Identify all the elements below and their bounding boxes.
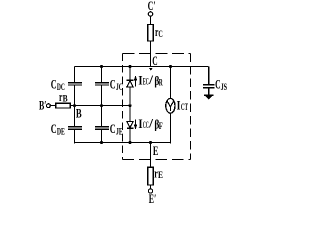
wire CJE to bottom rail	[101, 129, 103, 143]
svg-text:B′: B′	[39, 98, 47, 113]
wire E rail to rE	[150, 143, 152, 167]
junction dot CJC top	[100, 65, 103, 68]
junction dot CJE bottom	[100, 141, 103, 144]
resistor rC label	[155, 24, 163, 39]
capacitor CDE plates	[68, 127, 82, 129]
wire B rail to CDE	[74, 106, 76, 126]
capacitor CDC branch: wire from C rail	[74, 66, 76, 82]
svg-text:CT: CT	[181, 102, 188, 112]
wire CDC to B rail	[74, 85, 76, 106]
wire B rail to diode DBE	[129, 106, 131, 122]
svg-text:B: B	[76, 106, 82, 121]
wire CDE to bottom rail	[74, 129, 76, 144]
diode DBE cathode bar	[127, 127, 134, 129]
junction dot diode/B rail	[128, 104, 131, 107]
svg-text:R: R	[159, 78, 163, 88]
svg-text:JC: JC	[116, 82, 123, 92]
node E' terminal circle	[148, 189, 152, 193]
junction dot E vertical	[149, 141, 152, 144]
node C' terminal label	[148, 0, 156, 13]
dashed intrinsic-transistor box top edge	[122, 53, 190, 55]
svg-text:C: C	[110, 121, 116, 136]
svg-text:C: C	[51, 77, 57, 92]
svg-text:B: B	[63, 94, 68, 104]
wire ICT to bottom rail	[170, 113, 172, 144]
C rail wire	[75, 66, 209, 68]
node C' terminal circle	[148, 12, 152, 16]
svg-text:C: C	[51, 121, 57, 136]
resistor rC body	[148, 25, 154, 42]
wire DBE to bottom rail	[129, 128, 131, 143]
node E' terminal label	[149, 191, 157, 206]
svg-text:C: C	[110, 77, 116, 92]
svg-text:E: E	[158, 170, 163, 180]
node B' terminal circle	[47, 104, 51, 108]
diode branch: junction dot top	[128, 65, 131, 68]
current source ICT: junction dot top	[169, 65, 172, 68]
capacitor CJE label	[110, 121, 123, 137]
wire CJS to ground	[208, 88, 210, 95]
wire C' to rC	[150, 16, 152, 24]
current arrow up (Iec/bR)	[135, 80, 137, 87]
svg-text:C′: C′	[148, 0, 156, 13]
capacitor CJE plates	[95, 127, 109, 129]
label Icc/bF	[138, 116, 163, 132]
current arrow down (Icc/bF)	[135, 120, 137, 126]
junction arrowhead at C	[149, 68, 153, 71]
junction dot CDC/B rail	[73, 104, 76, 107]
capacitor CDC label	[51, 77, 65, 93]
current source ICT circle	[166, 98, 175, 113]
label ICT	[177, 98, 188, 113]
capacitor CJC branch: wire from C rail	[101, 67, 103, 82]
capacitor CJC plates	[95, 83, 109, 85]
bottom (E) rail wire	[74, 142, 171, 144]
diode DBC triangle	[127, 81, 133, 87]
wire DBC to B rail	[129, 87, 131, 106]
svg-text:/: /	[148, 116, 153, 131]
svg-text:C: C	[158, 29, 162, 39]
capacitor CJS plates	[203, 85, 215, 88]
dashed intrinsic-transistor box right edge	[190, 54, 192, 160]
wire C rail to diode DBC	[129, 67, 131, 80]
B rail wire	[70, 105, 131, 107]
wire rE to E'	[150, 185, 152, 189]
wire C rail to CJS	[208, 66, 210, 84]
diode DBC (B-C) cathode bar	[127, 79, 134, 81]
wire C rail to ICT	[170, 67, 172, 98]
capacitor CDE label	[51, 121, 65, 137]
node B' terminal label	[39, 98, 47, 113]
svg-text:CC: CC	[143, 120, 149, 130]
junction dot CJC/B rail	[100, 104, 103, 107]
junction dot diode/bottom rail	[128, 141, 131, 144]
resistor rB label	[59, 89, 68, 104]
resistor rB body	[56, 103, 71, 108]
wire B' to rB	[50, 105, 56, 107]
svg-text:EC: EC	[143, 76, 149, 86]
dashed intrinsic-transistor box bottom edge	[122, 159, 190, 161]
resistor rE body	[148, 167, 154, 185]
wire rC to C rail	[150, 41, 152, 67]
svg-text:DE: DE	[57, 126, 65, 136]
diode DBE (B-E) triangle	[127, 122, 133, 128]
node B label	[76, 106, 82, 121]
svg-text:JS: JS	[221, 82, 228, 92]
node C label	[152, 53, 157, 68]
dashed intrinsic-transistor box left edge	[122, 54, 124, 160]
node E label	[153, 143, 159, 158]
label Iec/bR	[138, 72, 163, 88]
ground symbol	[204, 94, 214, 96]
svg-text:E: E	[153, 143, 159, 158]
svg-text:I: I	[177, 98, 181, 113]
current source ICT arrow	[167, 101, 174, 107]
resistor rE label	[154, 165, 163, 180]
wire CJC to B rail	[101, 85, 103, 106]
wire B rail to CJE	[101, 106, 103, 126]
svg-text:E′: E′	[149, 191, 157, 206]
capacitor CDC plates	[68, 83, 82, 85]
svg-text:JE: JE	[116, 126, 123, 136]
capacitor CJS label	[215, 77, 227, 93]
svg-text:/: /	[148, 72, 153, 87]
svg-text:F: F	[159, 121, 163, 131]
capacitor CJC label	[110, 77, 123, 93]
